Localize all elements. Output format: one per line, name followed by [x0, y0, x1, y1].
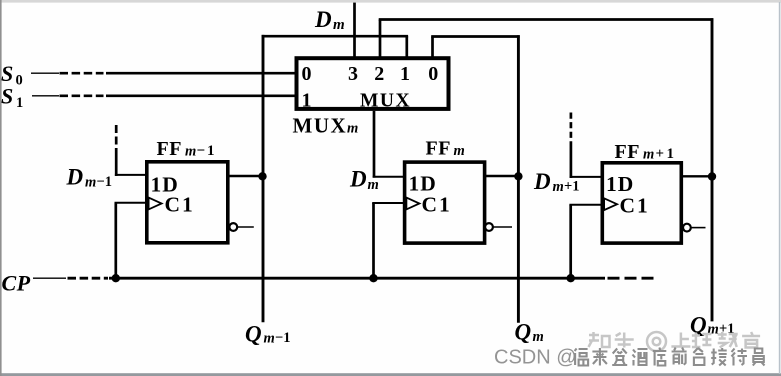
wire CP dashed continuation right: [608, 277, 655, 280]
svg-text:2: 2: [374, 63, 384, 85]
node junction FF_m output: [514, 172, 522, 180]
flip-flop FF_m-1 box: [147, 162, 228, 243]
left gray border: [0, 0, 2, 376]
wire FF_m-1 clock vertical to CP: [114, 203, 117, 278]
node D_m label (MUX output): [349, 167, 379, 194]
flip-flop FF_m caption: [426, 138, 465, 160]
svg-text:m: m: [333, 17, 345, 33]
svg-text:D: D: [349, 167, 367, 192]
svg-text:1: 1: [302, 90, 312, 112]
wire CP thin stub: [33, 277, 66, 279]
wire S_0 dashed segment: [60, 72, 104, 75]
svg-text:m: m: [264, 331, 275, 347]
wire D_m vertical into MUX pin 3: [353, 3, 356, 58]
fake CJK glyph yuan: [753, 349, 765, 366]
fake CJK glyph yu: [742, 332, 760, 348]
wire FF_m clock from CP: [372, 202, 404, 204]
bottom gray border bar: [0, 373, 781, 376]
svg-text:m: m: [553, 179, 564, 195]
net D_m label (top): [314, 7, 345, 33]
node junction CP to FF_m+1 clock: [567, 274, 575, 282]
fake CJK glyph tai: [693, 348, 704, 365]
svg-text:D: D: [314, 7, 332, 32]
svg-text:S: S: [1, 84, 13, 109]
right gray border: [779, 2, 781, 374]
svg-text:CP: CP: [2, 271, 31, 296]
svg-text:C1: C1: [422, 193, 452, 217]
FF_m-1 inverted output bubble: [229, 223, 237, 231]
fake CJK glyph jiao: [718, 332, 738, 348]
svg-text:C1: C1: [165, 193, 195, 217]
node junction CP to FF_m-1 clock: [112, 274, 120, 282]
svg-text:S: S: [1, 61, 13, 86]
MUX_m caption below box: [293, 114, 359, 138]
watermark at-sign: [647, 332, 666, 351]
node junction CP to FF_m clock: [369, 274, 377, 282]
wire vertical x=263 (Q_m-1 column): [262, 35, 265, 322]
wire S_1 dashed segment: [60, 94, 104, 97]
fake CJK glyph dai: [732, 349, 748, 366]
wire S_1 solid to MUX: [106, 94, 297, 97]
svg-text:C1: C1: [620, 193, 650, 217]
wire FF_m Q output to node: [485, 175, 519, 177]
svg-text:−1: −1: [275, 330, 291, 346]
svg-text:−1: −1: [97, 174, 113, 190]
wire D_m+1 into FF_m+1: [570, 176, 603, 178]
input CP label: [2, 271, 31, 296]
svg-text:MUX: MUX: [293, 114, 348, 138]
fake CJK glyph deng: [612, 349, 627, 366]
wire FF_m-1 Q output to node: [228, 175, 263, 177]
svg-text:m: m: [185, 144, 196, 160]
input D_m+1 label: [533, 169, 580, 195]
wire MUX pin 2 riser: [379, 20, 382, 59]
svg-text:m: m: [533, 329, 544, 345]
wire feedback Q_m-1 to pin 1 horizontal: [262, 35, 408, 38]
output Q_m-1 label: [245, 322, 291, 347]
wire FF_m+1 clock vertical to CP: [569, 205, 572, 278]
svg-text:FF: FF: [157, 138, 182, 160]
wire D_m into FF_m: [373, 176, 405, 178]
output Q_m label: [515, 320, 544, 346]
svg-text:0: 0: [428, 63, 438, 85]
wire MUX pin 1 riser: [405, 36, 408, 58]
input D_m-1 label: [66, 165, 113, 191]
flip-flop FF_m box: [405, 162, 485, 243]
svg-text:CSDN @: CSDN @: [494, 346, 577, 368]
wire S_1 thin stub: [32, 95, 59, 97]
FF_m-1 clock edge triangle: [149, 198, 162, 210]
flip-flop FF_m+1 box: [602, 163, 681, 243]
fake CJK glyph fu: [575, 349, 589, 366]
fake CJK glyph zhi: [589, 332, 610, 347]
wire vertical x=712 (Q_m+1 column): [711, 18, 714, 321]
svg-text:Q: Q: [515, 320, 532, 345]
svg-text:Q: Q: [245, 322, 262, 347]
wire feedback Q_m to pin 0 horizontal: [431, 35, 520, 38]
watermark zhihu line (light gray): [589, 332, 761, 351]
wire FF_m+1 inverted output stub: [691, 227, 706, 229]
wire D_m+1 vertical solid: [570, 146, 573, 178]
wire FF_m-1 clock from CP: [115, 202, 147, 204]
input S_1 label: [1, 84, 23, 112]
node junction FF_m+1 output: [708, 172, 716, 180]
svg-text:m: m: [347, 121, 358, 137]
wire FF_m inverted output stub: [493, 226, 512, 228]
wire D_m-1 dashed vertical continuation: [115, 125, 118, 149]
fake CJK glyph jie: [711, 348, 727, 366]
wire D_m-1 into FF_m-1: [115, 174, 147, 176]
svg-text:FF: FF: [426, 138, 451, 160]
svg-text:+1: +1: [656, 146, 677, 162]
fake CJK glyph shang: [671, 333, 690, 347]
svg-text:0: 0: [16, 73, 23, 89]
svg-text:FF: FF: [615, 141, 640, 163]
svg-text:1: 1: [16, 95, 23, 111]
wire S_0 thin stub: [31, 72, 59, 74]
wire FF_m+1 clock from CP: [569, 204, 602, 206]
svg-text:3: 3: [348, 63, 358, 85]
input S_0 label: [1, 61, 23, 89]
svg-text:0: 0: [302, 63, 312, 85]
multiplexer MUX_m box: [297, 58, 449, 109]
svg-text:−1: −1: [197, 143, 217, 159]
fake CJK glyph li: [692, 333, 712, 348]
wire CP dashed segment: [68, 277, 109, 280]
flip-flop FF_m-1 caption: [157, 138, 217, 160]
wire D_m-1 vertical solid: [115, 149, 118, 176]
svg-text:D: D: [66, 165, 84, 190]
fake CJK glyph jiu: [633, 349, 648, 366]
FF_m inverted output bubble: [485, 223, 493, 231]
wire FF_m+1 Q output to node: [682, 175, 712, 177]
wire feedback Q_m+1 to pin 2 horizontal: [379, 18, 714, 21]
wire MUX pin 0 riser: [431, 37, 434, 59]
node junction FF_m-1 output: [258, 172, 266, 180]
wire vertical x=518.4 (Q_m column): [517, 35, 520, 323]
svg-text:m: m: [454, 143, 465, 159]
svg-text:D: D: [533, 169, 551, 194]
FF_m+1 clock edge triangle: [604, 198, 617, 210]
top gray border bar: [0, 0, 781, 3]
FF_m clock edge triangle: [406, 198, 419, 210]
wire D_m+1 dashed vertical continuation: [570, 113, 573, 147]
svg-text:MUX: MUX: [360, 91, 411, 112]
fake CJK glyph lai: [592, 348, 607, 366]
svg-text:1: 1: [400, 63, 410, 85]
fake CJK glyph hu: [615, 333, 634, 348]
wire FF_m clock vertical to CP: [372, 203, 375, 278]
output Q_m+1 label: [690, 313, 735, 338]
svg-text:+1: +1: [564, 179, 580, 195]
wire FF_m-1 inverted output stub: [237, 226, 253, 228]
svg-text:m: m: [85, 175, 96, 191]
fake CJK glyph dian: [653, 348, 667, 366]
fake CJK glyph qian: [672, 348, 687, 365]
wire S_0 solid to MUX: [106, 72, 297, 75]
svg-text:m: m: [643, 147, 654, 163]
wire CP main line: [109, 277, 605, 280]
wire MUX output down to D_m node: [373, 111, 376, 178]
flip-flop FF_m+1 caption: [615, 141, 677, 163]
FF_m+1 inverted output bubble: [683, 224, 691, 232]
svg-text:m: m: [368, 177, 379, 193]
